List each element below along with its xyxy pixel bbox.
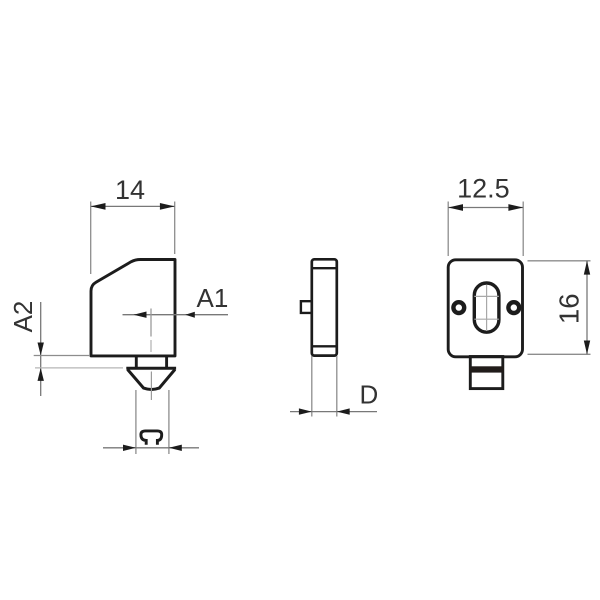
top band line bbox=[312, 267, 337, 269]
dimension 12.5 extension left bbox=[447, 202, 449, 257]
svg-text:14: 14 bbox=[115, 175, 145, 205]
pin collar dark band bbox=[469, 366, 504, 372]
pin axis centerline short dash bbox=[150, 340, 152, 352]
A2 dimension line bbox=[40, 302, 42, 396]
stem side right / extension bbox=[168, 390, 170, 454]
slot lower arc centerline bbox=[474, 318, 499, 320]
side tab bbox=[301, 301, 312, 313]
dimension 12.5 arrow right bbox=[508, 204, 523, 211]
D dimension line bbox=[290, 411, 377, 413]
pin neck left side bbox=[135, 356, 138, 368]
dimension 16 arrow bottom (points down) bbox=[584, 341, 590, 355]
slot upper arc centerline bbox=[474, 295, 499, 297]
dimension 14 extension line left bbox=[90, 202, 92, 275]
dimension 14 line bbox=[91, 205, 175, 207]
A1 leader line bbox=[123, 314, 229, 316]
pin axis centerline lower bbox=[150, 372, 152, 401]
bottom dimension line bbox=[103, 447, 199, 449]
pin cone flanks and bottom bbox=[128, 369, 176, 389]
D arrow left (points right) bbox=[299, 408, 312, 414]
pin neck right side bbox=[165, 356, 168, 368]
dimension 14 extension line right bbox=[174, 202, 176, 255]
dimension 12.5 arrow left bbox=[448, 204, 463, 211]
central slot (capsule) bbox=[474, 283, 499, 332]
svg-text:A1: A1 bbox=[197, 283, 229, 313]
dimension 16 extension upper bbox=[528, 260, 591, 262]
slot vertical centerline bbox=[486, 285, 488, 331]
dimension 14 arrow right bbox=[160, 203, 175, 210]
A1 arrow inner bbox=[134, 312, 147, 318]
spring clip cross-section bbox=[141, 431, 162, 445]
right hole bbox=[508, 302, 519, 313]
bottom dimension arrow right (points left) bbox=[169, 445, 182, 451]
D arrow right (points left) bbox=[337, 408, 350, 414]
bottom dimension arrow left (points right) bbox=[123, 445, 136, 451]
pin cone top edge bbox=[126, 367, 176, 370]
D extension line left bbox=[311, 356, 313, 417]
body outline (side view with chamfered top-left) bbox=[91, 260, 175, 356]
stem side left / extension bbox=[135, 390, 137, 454]
A2 extension line lower bbox=[35, 367, 123, 369]
A2 arrow lower (points up) bbox=[38, 368, 44, 381]
front face outline bbox=[448, 260, 522, 357]
side profile outline bbox=[312, 259, 337, 355]
dimension 16 line bbox=[586, 261, 588, 355]
A2 arrow upper (points down) bbox=[38, 343, 44, 356]
svg-text:16: 16 bbox=[553, 294, 584, 325]
svg-text:A2: A2 bbox=[8, 301, 38, 333]
pin front outline bbox=[470, 357, 503, 389]
dimension 16 extension lower bbox=[528, 353, 591, 355]
bottom band line bbox=[312, 345, 337, 347]
dimension 14 arrow left bbox=[91, 203, 106, 210]
dimension 12.5 extension right bbox=[522, 202, 524, 257]
pin axis centerline upper bbox=[150, 309, 152, 337]
svg-text:12.5: 12.5 bbox=[457, 173, 510, 203]
dimension 12.5 line bbox=[448, 207, 523, 209]
dimension 16 arrow top (points up) bbox=[584, 261, 590, 275]
D extension line right bbox=[336, 356, 338, 417]
left hole bbox=[453, 302, 464, 313]
A2 extension line upper bbox=[34, 355, 90, 357]
svg-text:D: D bbox=[360, 379, 379, 409]
A1 arrow outer bbox=[185, 312, 195, 318]
